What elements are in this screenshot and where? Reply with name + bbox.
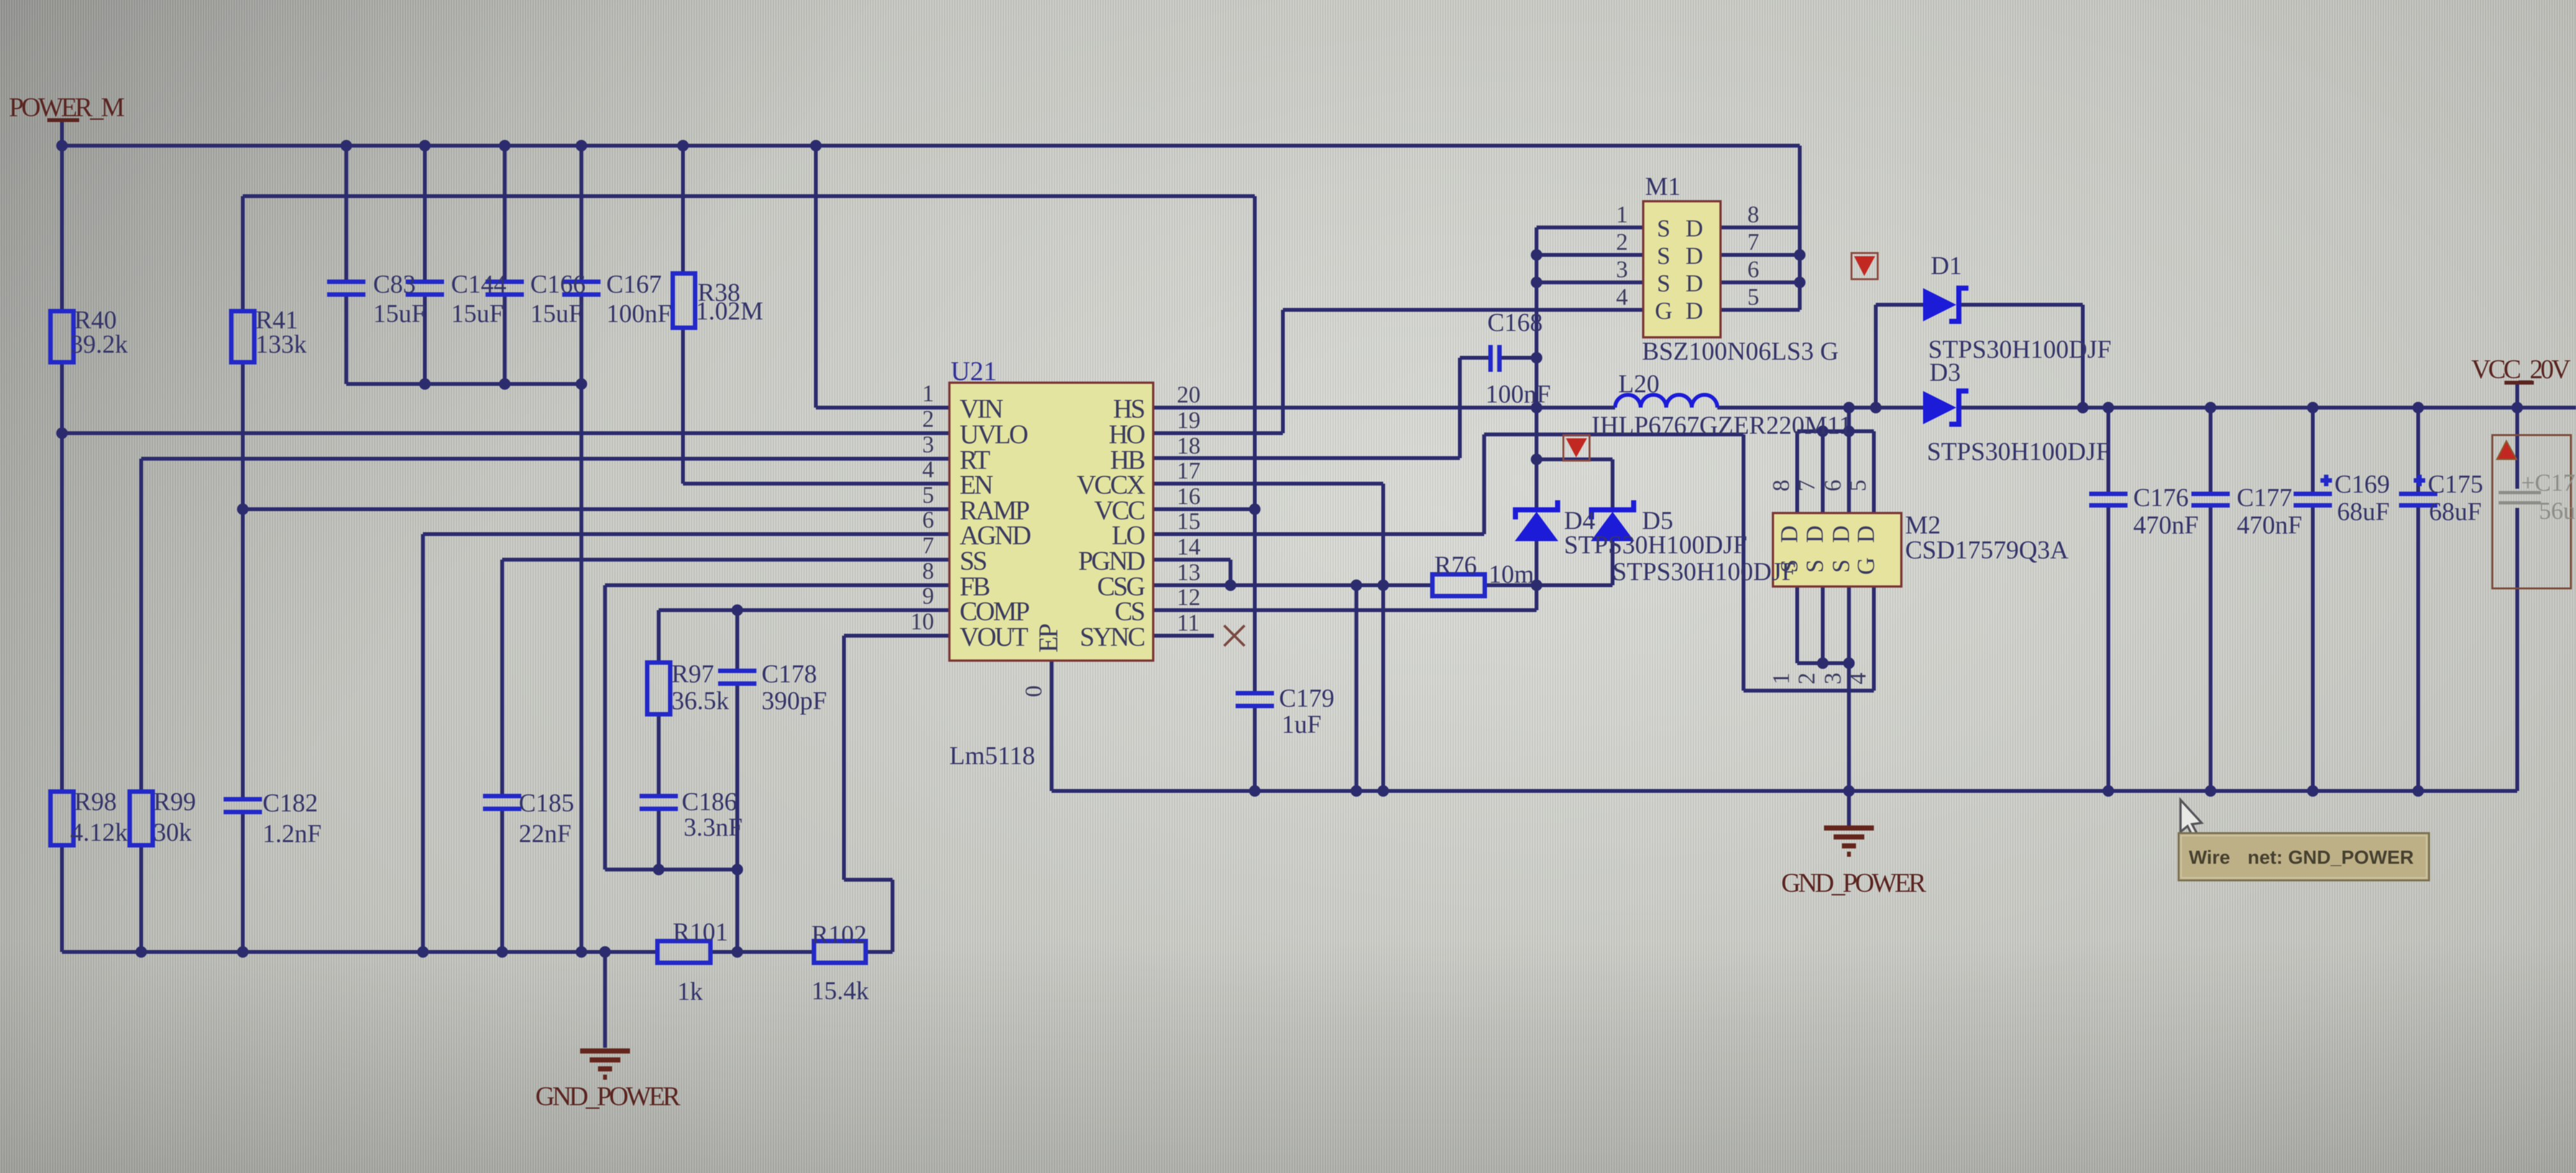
svg-text:100nF: 100nF xyxy=(1485,379,1551,408)
junction dots M1 source stubs xyxy=(1531,249,1542,261)
resistor R40 xyxy=(50,311,73,362)
svg-text:G: G xyxy=(1655,298,1672,325)
wire CSG row U21 pin 13 to R76 left xyxy=(1153,583,1432,587)
svg-text:9: 9 xyxy=(923,583,935,609)
svg-text:4: 4 xyxy=(1845,673,1871,685)
svg-text:U21: U21 xyxy=(951,357,997,387)
svg-text:D: D xyxy=(1853,525,1880,542)
wire C175 leads xyxy=(2416,408,2420,791)
resistor R76 xyxy=(1432,574,1485,596)
wire FB vertical xyxy=(603,585,607,870)
capacitor C182 xyxy=(224,799,262,812)
wire LO vertical xyxy=(1482,434,1486,534)
svg-text:C185: C185 xyxy=(519,788,574,817)
no-connect X on SYNC pin 11 xyxy=(1224,625,1245,646)
svg-text:390pF: 390pF xyxy=(762,686,827,715)
wire EN row to U21 pin 4 xyxy=(683,482,949,486)
svg-text:C177: C177 xyxy=(2237,483,2292,512)
svg-text:R99: R99 xyxy=(153,787,196,816)
wire right ground symbol drop xyxy=(1847,791,1851,825)
capacitor C177 xyxy=(2191,494,2230,505)
svg-text:R97: R97 xyxy=(671,659,714,688)
tooltip Wire net GND_POWER xyxy=(2179,833,2429,880)
wire HB vertical to C168 xyxy=(1458,358,1462,458)
svg-text:G: G xyxy=(1853,557,1880,574)
junction dots left ground bus xyxy=(135,946,147,958)
svg-text:S: S xyxy=(1776,559,1803,572)
wire LO row U21 pin 15 xyxy=(1153,532,1484,536)
junction dots compensation bottom row xyxy=(653,864,664,875)
svg-text:D1: D1 xyxy=(1931,251,1962,280)
svg-text:CSD17579Q3A: CSD17579Q3A xyxy=(1905,535,2069,564)
capacitor C169 polarized xyxy=(2294,475,2332,505)
wire AGND vertical xyxy=(421,534,425,952)
wire R38 top lead xyxy=(681,146,685,273)
svg-text:C182: C182 xyxy=(263,788,318,817)
svg-text:3: 3 xyxy=(923,432,935,458)
wire HO vertical xyxy=(1281,310,1285,433)
wire C179 bottom to ground bus xyxy=(1253,706,1257,791)
wire M2 drain pins 8 7 5 xyxy=(1797,431,1874,513)
svg-text:C175: C175 xyxy=(2428,470,2483,498)
svg-text:8: 8 xyxy=(1747,202,1759,228)
svg-text:100nF: 100nF xyxy=(606,299,671,328)
wire VIN drop from top bus xyxy=(814,146,818,408)
wire D1 cathode lead xyxy=(1960,303,2083,307)
wire VCC feed line upper xyxy=(243,194,1255,198)
junction dots M2 source bus xyxy=(1817,657,1828,669)
svg-text:3: 3 xyxy=(1616,257,1629,283)
junction dots VCC C179 xyxy=(1249,503,1261,515)
capacitor C144 xyxy=(406,282,444,295)
mouse cursor arrow xyxy=(2181,800,2202,836)
svg-text:12: 12 xyxy=(1177,585,1200,611)
wire HO row U21 pin 19 xyxy=(1153,431,1283,435)
inductor L20 xyxy=(1615,395,1717,408)
net label POWER_M bar xyxy=(47,118,79,122)
wire COMP row to U21 pin 9 xyxy=(659,608,949,612)
wire RAMP row to U21 pin 5 xyxy=(243,507,949,511)
svg-text:13: 13 xyxy=(1177,560,1200,586)
svg-text:STPS30H100DJF: STPS30H100DJF xyxy=(1613,557,1796,586)
svg-text:16: 16 xyxy=(1177,484,1200,510)
svg-text:S: S xyxy=(1802,559,1828,572)
wire M2 gate pin 4 lead xyxy=(1872,586,1876,691)
svg-text:S: S xyxy=(1657,270,1670,297)
svg-text:7: 7 xyxy=(1794,480,1820,492)
svg-text:C144: C144 xyxy=(451,270,507,298)
svg-text:68uF: 68uF xyxy=(2337,497,2389,526)
capacitor C175 polarized xyxy=(2399,475,2437,505)
svg-text:1.02M: 1.02M xyxy=(696,296,763,325)
wire R38 bottom to EN xyxy=(681,328,685,484)
svg-text:EP: EP xyxy=(1034,624,1064,653)
svg-text:18: 18 xyxy=(1177,433,1200,459)
wire PGND row U21 pin 14 xyxy=(1153,558,1230,562)
wire VCCX drop to ground bus xyxy=(1381,484,1385,791)
svg-text:20: 20 xyxy=(1177,382,1200,408)
capacitor C167 xyxy=(562,282,601,295)
wire HS switch row U21 pin 20 to L20 xyxy=(1153,406,1615,410)
svg-text:net: GND_POWER: net: GND_POWER xyxy=(2248,847,2414,868)
wire M1 source gate vertical to switch node xyxy=(1535,227,1538,408)
capacitor C186 xyxy=(640,796,678,809)
svg-text:15.4k: 15.4k xyxy=(811,976,869,1005)
svg-text:R98: R98 xyxy=(74,787,117,816)
capacitor C179 xyxy=(1236,693,1274,706)
svg-text:5: 5 xyxy=(923,482,935,509)
capacitor C166 xyxy=(486,282,524,295)
wire D5 cathode lead xyxy=(1611,459,1614,510)
transistor M1 body xyxy=(1643,201,1721,337)
wire M1 left stubs pins 1 2 3 xyxy=(1537,227,1643,282)
wire C182 bottom to ground bus xyxy=(241,812,245,952)
junction dots CSG row xyxy=(1225,579,1236,591)
ground symbol GND_POWER left xyxy=(580,1051,630,1077)
wire left ground bus segment 3 xyxy=(866,950,893,954)
svg-text:R76: R76 xyxy=(1434,551,1477,579)
junction dot RAMP R41 xyxy=(237,503,249,515)
svg-text:11: 11 xyxy=(1177,610,1200,636)
wire R97 bottom to C186 top xyxy=(657,714,661,796)
wire SS vertical to C185 xyxy=(500,560,504,796)
wire R99 bottom lead xyxy=(139,845,143,952)
wire VOUT path down to R102 right xyxy=(844,636,893,952)
svg-text:C186: C186 xyxy=(682,787,737,816)
transistor M2 body xyxy=(1773,513,1901,586)
capacitor C178 xyxy=(718,671,756,684)
svg-text:STPS30H100DJF: STPS30H100DJF xyxy=(1927,437,2110,466)
svg-text:L20: L20 xyxy=(1618,369,1659,398)
wire FB row to U21 pin 8 xyxy=(605,583,949,587)
wire right ground bus xyxy=(1052,789,2517,793)
wire VOUT row to U21 pin 10 xyxy=(844,634,949,638)
wire C167 top lead xyxy=(579,146,583,282)
wire SS row to U21 pin 7 xyxy=(502,558,949,562)
resistor R38 xyxy=(673,273,695,328)
wire C168 right lead to switch node xyxy=(1499,356,1537,360)
svg-text:C178: C178 xyxy=(762,659,817,688)
junction dots right ground bus xyxy=(1351,785,1362,797)
wire POWER_M top bus xyxy=(61,144,1800,148)
svg-text:0: 0 xyxy=(1021,686,1047,698)
wire U21 EP pad drop xyxy=(1050,661,1054,791)
svg-text:Wire: Wire xyxy=(2189,847,2230,868)
wire C178 top lead xyxy=(735,610,739,671)
wire RT row to U21 pin 3 xyxy=(141,457,949,461)
svg-text:D: D xyxy=(1685,298,1703,325)
wire VIN row to U21 pin 1 xyxy=(816,406,949,410)
capacitor C185 xyxy=(483,796,521,809)
wire D4 cathode lead from switch node xyxy=(1535,408,1538,510)
junction dots M1 drain stubs xyxy=(1794,249,1805,261)
svg-text:15uF: 15uF xyxy=(451,299,503,328)
junction dots UVLO row xyxy=(56,427,68,439)
diode D1 xyxy=(1923,286,1968,324)
svg-text:1k: 1k xyxy=(677,977,703,1006)
wire D1 anode lead xyxy=(1876,303,1923,307)
resistor R97 xyxy=(647,663,670,714)
svg-text:POWER_M: POWER_M xyxy=(9,93,125,123)
capacitor C168 xyxy=(1491,345,1499,372)
junction dots output rail capacitors xyxy=(2103,402,2114,413)
capacitor C83 xyxy=(327,282,365,295)
wire VCC_20V drop and edge capacitor leads xyxy=(2515,384,2519,791)
svg-text:4: 4 xyxy=(923,457,935,483)
svg-text:15: 15 xyxy=(1177,509,1200,535)
svg-text:C168: C168 xyxy=(1487,308,1543,337)
diode D5 xyxy=(1589,500,1636,541)
probe marker red triangle near D1 xyxy=(1851,253,1878,279)
svg-text:7: 7 xyxy=(1747,229,1759,256)
wire gate drive row to M2 xyxy=(1484,433,1744,436)
svg-text:4: 4 xyxy=(1616,284,1629,310)
wire drop to left ground symbol xyxy=(603,952,607,1048)
svg-text:1: 1 xyxy=(1616,202,1629,228)
wire left ground bus segment 2 xyxy=(710,950,814,954)
svg-text:133k: 133k xyxy=(256,330,307,358)
svg-text:R101: R101 xyxy=(673,917,728,946)
resistor R102 xyxy=(814,941,866,963)
svg-text:STPS30H100DJF: STPS30H100DJF xyxy=(1564,530,1747,559)
svg-text:6: 6 xyxy=(1820,480,1846,492)
svg-text:IHLP6767GZER220M11: IHLP6767GZER220M11 xyxy=(1591,411,1851,440)
svg-text:1.2nF: 1.2nF xyxy=(263,819,321,848)
junction dots switch row right xyxy=(1843,402,1855,413)
svg-text:D: D xyxy=(1685,270,1703,297)
svg-text:2: 2 xyxy=(923,406,935,433)
junction dots M2 drain bus xyxy=(1817,425,1828,437)
wire PGND vertical xyxy=(1229,560,1232,585)
wire COMP to R97 top xyxy=(657,610,661,663)
svg-text:2: 2 xyxy=(1616,229,1629,256)
wire gate drive bottom row xyxy=(1744,689,1874,693)
net label VCC_20V bar xyxy=(2504,381,2534,385)
wire C178 bottom lead to ground bus xyxy=(735,684,739,952)
svg-text:6: 6 xyxy=(1747,257,1759,283)
wire R41 bottom to C182 top through RAMP xyxy=(241,362,245,799)
svg-text:C169: C169 xyxy=(2334,470,2390,498)
svg-text:Lm5118: Lm5118 xyxy=(949,741,1035,770)
svg-text:3.3nF: 3.3nF xyxy=(684,813,742,841)
wire VCC row U21 pin 16 xyxy=(1153,507,1255,511)
wire D4 anode lead to sense row and CS xyxy=(1535,540,1538,610)
wire C83 top lead xyxy=(344,146,348,282)
wire M2 source pins 1 2 xyxy=(1797,586,1823,663)
wire switch row L20 to D3 anode xyxy=(1717,406,1923,410)
svg-text:5: 5 xyxy=(1845,480,1871,492)
wire C186 bottom lead xyxy=(657,809,661,870)
probe marker red triangle at edge capacitor xyxy=(2497,441,2517,459)
svg-text:VOUT: VOUT xyxy=(960,623,1028,652)
ground symbol GND_POWER right xyxy=(1824,828,1874,854)
svg-text:17: 17 xyxy=(1177,458,1200,484)
svg-text:10m: 10m xyxy=(1489,560,1534,588)
svg-text:R102: R102 xyxy=(811,920,867,949)
junction dots top bus xyxy=(56,140,68,151)
wire CSG drop to ground bus xyxy=(1354,585,1358,791)
wire compensation bottom row xyxy=(605,868,737,871)
svg-text:D: D xyxy=(1685,215,1703,242)
svg-text:C176: C176 xyxy=(2133,483,2189,512)
svg-text:C167: C167 xyxy=(606,270,662,298)
junction dots switch node column xyxy=(1531,352,1542,364)
wire HB row U21 pin 18 xyxy=(1153,456,1460,460)
wire R40 bottom to R98 top UVLO net xyxy=(60,362,64,792)
svg-text:7: 7 xyxy=(923,533,935,559)
svg-text:15uF: 15uF xyxy=(530,299,583,328)
svg-text:39.2k: 39.2k xyxy=(70,330,128,358)
wire capacitor bottom bus xyxy=(346,382,581,386)
wire C185 bottom to ground bus xyxy=(500,809,504,952)
wire D1 cathode drop to rail xyxy=(2081,305,2085,408)
wire R41 top lead xyxy=(241,196,245,311)
capacitor C176 xyxy=(2089,494,2127,505)
wire VCC_20V rail D3 cathode to right edge xyxy=(1960,406,2576,410)
wire C83 C144 C166 C167 bottom leads xyxy=(346,295,581,384)
svg-text:15uF: 15uF xyxy=(373,299,425,328)
svg-text:C166: C166 xyxy=(530,270,586,298)
svg-text:D: D xyxy=(1776,525,1803,542)
wire C144 top lead xyxy=(423,146,427,282)
wire SYNC stub pin 11 xyxy=(1153,634,1214,638)
svg-text:VCC_20V: VCC_20V xyxy=(2471,355,2570,385)
wire gate drive down right of M2 xyxy=(1742,434,1745,691)
svg-text:8: 8 xyxy=(923,558,935,585)
svg-text:C83: C83 xyxy=(373,270,416,298)
wire C169 leads xyxy=(2311,408,2315,791)
svg-text:GND_POWER: GND_POWER xyxy=(535,1082,680,1112)
probe marker red triangle on gate row xyxy=(1563,435,1590,461)
svg-text:470nF: 470nF xyxy=(2133,510,2198,539)
svg-text:D: D xyxy=(1828,525,1855,542)
svg-text:3: 3 xyxy=(1820,673,1846,685)
svg-text:S: S xyxy=(1657,243,1670,270)
svg-text:19: 19 xyxy=(1177,408,1200,434)
svg-text:2: 2 xyxy=(1794,673,1820,685)
svg-text:30k: 30k xyxy=(153,818,192,847)
wire M1 drain vertical from top bus xyxy=(1798,146,1802,310)
wire R76 right to D5 anode row xyxy=(1485,583,1613,587)
svg-text:1: 1 xyxy=(923,381,935,407)
svg-text:68uF: 68uF xyxy=(2429,497,2481,526)
wire M2 source pin 3 to ground bus xyxy=(1847,586,1851,791)
diode D3 xyxy=(1923,388,1968,427)
junction dot COMP C178 xyxy=(732,604,743,616)
svg-text:1uF: 1uF xyxy=(1282,710,1321,739)
wire RT vertical to R99 xyxy=(139,459,143,792)
wire M2 drain pin 6 to switch row xyxy=(1847,408,1851,513)
ghost capacitor at right edge xyxy=(2499,493,2541,503)
svg-text:56u: 56u xyxy=(2539,498,2575,525)
svg-text:SYNC: SYNC xyxy=(1080,623,1144,652)
svg-text:M1: M1 xyxy=(1645,172,1681,201)
wire C168 left lead xyxy=(1460,356,1491,360)
diode D4 xyxy=(1513,500,1560,541)
wire D5 cathode stub xyxy=(1537,457,1613,461)
svg-text:4.12k: 4.12k xyxy=(70,818,128,847)
wire UVLO row to U21 pin 2 xyxy=(62,431,949,435)
svg-text:C179: C179 xyxy=(1279,684,1335,712)
svg-text:1: 1 xyxy=(1768,673,1795,685)
svg-text:BSZ100N06LS3 G: BSZ100N06LS3 G xyxy=(1642,337,1839,365)
wire left ground bus segment 1 xyxy=(62,950,657,954)
svg-text:10: 10 xyxy=(910,609,934,635)
wire R98 bottom lead xyxy=(60,845,64,952)
svg-text:8: 8 xyxy=(1768,480,1795,492)
svg-text:GND_POWER: GND_POWER xyxy=(1781,869,1926,898)
svg-text:14: 14 xyxy=(1177,534,1200,560)
wire D1 branch vertical xyxy=(1874,305,1878,408)
wire AGND row to U21 pin 6 xyxy=(423,532,949,536)
resistor R41 xyxy=(231,311,254,362)
svg-text:D3: D3 xyxy=(1929,358,1961,387)
junction dots capacitor bottom bus xyxy=(419,378,431,390)
wire M2 drain top bus xyxy=(1797,429,1874,433)
svg-text:36.5k: 36.5k xyxy=(671,686,729,715)
svg-text:D: D xyxy=(1802,525,1828,542)
wire VCC vertical to C179 top xyxy=(1253,196,1257,693)
svg-text:S: S xyxy=(1657,215,1670,242)
op-amp U21 LM5118 controller body xyxy=(949,383,1153,661)
svg-text:22nF: 22nF xyxy=(519,819,571,848)
wire POWER_M vertical to R40 xyxy=(60,121,64,311)
svg-text:470nF: 470nF xyxy=(2237,510,2302,539)
svg-text:S: S xyxy=(1828,559,1855,572)
wire C176 leads xyxy=(2106,408,2110,791)
wire CS row U21 pin 12 xyxy=(1153,608,1537,612)
svg-text:5: 5 xyxy=(1747,284,1759,310)
wire M1 drain stubs pins 8 7 6 5 xyxy=(1721,227,1800,310)
wire HO to M1 gate stub pin 4 xyxy=(1283,308,1643,312)
resistor R99 xyxy=(130,792,153,845)
svg-text:D: D xyxy=(1685,243,1703,270)
wire cap bus drop to left ground bus xyxy=(579,384,583,952)
selection box around edge capacitor xyxy=(2492,435,2571,588)
wire M2 source bottom bus xyxy=(1797,661,1849,665)
wire D5 anode lead xyxy=(1611,540,1614,585)
resistor R98 xyxy=(50,792,73,845)
wire VCCX row U21 pin 17 xyxy=(1153,482,1383,486)
svg-text:+C17: +C17 xyxy=(2521,470,2575,496)
resistor R101 xyxy=(657,941,710,963)
svg-text:6: 6 xyxy=(923,507,935,533)
wire C166 top lead xyxy=(503,146,507,282)
wire C177 leads xyxy=(2209,408,2212,791)
